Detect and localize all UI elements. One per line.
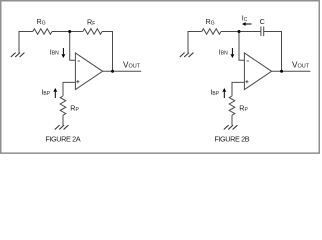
svg-text:FIGURE 2A: FIGURE 2A <box>45 135 80 144</box>
svg-text:FIGURE 2B: FIGURE 2B <box>214 135 249 144</box>
svg-text:C: C <box>260 17 265 26</box>
